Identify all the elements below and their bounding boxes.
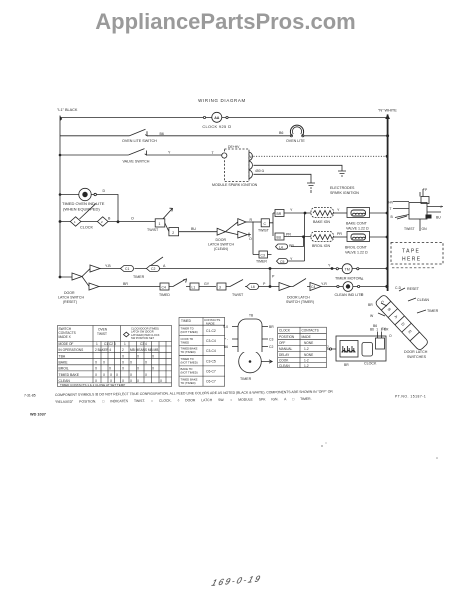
svg-text:T: T [390,207,392,211]
svg-text:C5: C5 [280,260,284,264]
svg-text:WD 1037: WD 1037 [30,413,46,417]
wire oven lite row [60,135,388,137]
svg-text:BU: BU [277,236,282,240]
svg-text:O: O [249,237,252,241]
wire timer row from bus [59,276,62,279]
svg-text:C3 4: C3 4 [140,342,147,346]
mode table h lines [58,341,172,383]
svg-text:B6: B6 [279,131,283,135]
svg-text:SW POSITION SET: SW POSITION SET [131,336,154,340]
svg-text:TIMER MOTOR: TIMER MOTOR [335,276,361,280]
timer dial outline [238,319,262,352]
svg-text:TWIST: TWIST [147,228,159,232]
connector triangle door latch timer [279,283,290,291]
svg-text:BAKE IGN: BAKE IGN [313,220,330,224]
svg-text:(CLEAN): (CLEAN) [214,247,228,251]
svg-text:RESET: RESET [407,287,420,291]
svg-text:TWIST: TWIST [97,332,107,336]
tape here box [391,243,443,268]
svg-text:OVEN LITE: OVEN LITE [286,139,305,143]
svg-text:TIMED: TIMED [159,293,170,297]
module spark ignition box [225,149,250,182]
wire connector block right leads [427,207,443,217]
svg-text:MADE: MADE [302,335,311,339]
svg-text:R: R [361,293,364,297]
svg-text:TWIST: TWIST [404,227,415,231]
connector box BU [275,233,284,240]
svg-text:TD (TIMED): TD (TIMED) [181,350,196,354]
svg-text:C3-C5: C3-C5 [206,359,216,363]
wire bake ign to valve [334,212,348,214]
svg-text:CLEAN: CLEAN [279,364,290,368]
svg-text:TIMED OVEN IND LITE: TIMED OVEN IND LITE [62,201,105,206]
connector oval L broil [276,244,288,249]
svg-text:ELECTRODES: ELECTRODES [330,186,355,190]
svg-text:SWITCHES: SWITCHES [407,355,427,359]
svg-text:X: X [145,361,148,365]
svg-text:BR: BR [344,363,349,367]
svg-text:(NOT TIMED): (NOT TIMED) [181,361,198,365]
wire right bus N [387,115,389,292]
resistor broil igniter [311,232,334,242]
connector triangle reset a [89,283,99,290]
svg-text:Y: Y [290,257,293,261]
svg-text:X: X [152,367,155,371]
svg-text:E: E [407,329,413,335]
svg-text:A: A [393,314,399,320]
svg-text:C3-C4: C3-C4 [206,349,216,353]
svg-text:X: X [130,373,133,377]
connector box 3 [217,283,226,290]
wire split vertical [272,223,274,236]
svg-text:DOOR: DOOR [216,238,227,242]
connector triangle door latch clean b [238,219,246,226]
svg-text:X: X [137,354,140,358]
svg-text:9-0: 9-0 [223,325,228,329]
connector triangle timer b [90,265,100,272]
svg-text:2: 2 [122,348,124,352]
svg-text:OVEN LITE SWITCH: OVEN LITE SWITCH [122,139,157,143]
resistor bake igniter [311,208,334,218]
svg-text:GY: GY [204,282,210,286]
wire module terminal 3 to electrode 1 [254,174,312,183]
wire timed row [99,286,388,288]
svg-text:GN: GN [422,227,428,231]
mode table v lines [93,326,166,383]
svg-text:2 BAKER 4: 2 BAKER 4 [95,348,111,352]
svg-text:BU: BU [191,227,196,231]
svg-text:DOOR LATCH: DOOR LATCH [404,350,428,354]
svg-text:1-2: 1-2 [304,347,309,351]
svg-text:TIMER: TIMER [427,309,439,313]
wire broil ign to valve [334,236,348,238]
svg-text:LATCH SWITCH: LATCH SWITCH [208,243,234,247]
wire vertical broil to C5 [286,213,305,261]
wire valve to N bus [370,212,388,214]
connector box C4 timed [160,283,169,290]
motor timer TM [342,264,352,274]
timer dial pins [232,327,268,347]
junction timer motor row [269,267,272,270]
svg-text:CLOCK: CLOCK [80,226,94,230]
svg-text:MADE: MADE [206,321,215,325]
module terminal 1 [249,152,252,161]
connector triangle timer a [72,273,82,280]
svg-text:PT.NO. 15187-1: PT.NO. 15187-1 [395,395,426,399]
svg-text:AA: AA [214,116,220,120]
connector box L1 [190,283,199,290]
connector box 1 [155,219,165,227]
svg-text:TWIST: TWIST [258,228,270,232]
svg-text:T: T [212,151,215,155]
svg-text:DELAY: DELAY [279,353,290,357]
svg-text:BR: BR [368,303,373,307]
svg-text:PR: PR [289,244,294,248]
switch timed [173,280,185,287]
svg-text:C4: C4 [311,285,315,289]
coil bake cont valve [347,208,370,218]
svg-text:X: X [130,361,133,365]
switch oven lite [130,129,146,136]
svg-text:HERE: HERE [402,257,422,263]
wire module terminal 2 to electrode 2 [254,165,343,171]
svg-text:C6-C7: C6-C7 [206,370,216,374]
svg-text:X: X [145,373,148,377]
connector block right HV [393,202,409,220]
svg-text:X: X [152,354,155,358]
svg-text:TIMED CONTACTS 1 & 2 CLOSE AT: TIMED CONTACTS 1 & 2 CLOSE AT SET TEMP [60,383,125,387]
svg-text:WIRING DIAGRAM: WIRING DIAGRAM [198,98,246,103]
svg-text:C-D: C-D [395,286,402,290]
svg-text:L6: L6 [251,285,255,289]
clock contact 1-2 [376,338,385,349]
svg-text:CLOCK: CLOCK [279,329,291,333]
lamp clock 925 ohm [212,112,222,122]
svg-text:169-0-19: 169-0-19 [210,574,263,588]
module terminal 2 [249,161,252,170]
wire from clock row down to C3 [252,222,254,255]
svg-text:X: X [137,367,140,371]
svg-text:MADE X: MADE X [59,335,72,339]
svg-text:X: X [95,373,98,377]
svg-text:TIMER: TIMER [256,260,267,264]
clock contact diamond 2 [97,217,108,226]
svg-text:SWITCH (TIMER): SWITCH (TIMER) [286,300,314,304]
coil broil cont valve [347,232,370,242]
connector triangle L4 [310,283,321,291]
svg-text:C6-C7: C6-C7 [206,380,216,384]
svg-text:"N" WHITE: "N" WHITE [378,108,397,112]
svg-text:O: O [131,217,134,221]
svg-text:TAPE: TAPE [402,249,420,255]
door latch switch lead arrows [378,288,426,316]
svg-text:MB MEANS MB MB: MB MEANS MB MB [130,348,158,352]
clock coils [342,351,355,353]
svg-text:O: O [389,334,392,338]
svg-text:BR: BR [269,325,274,329]
svg-text:B6: B6 [370,328,374,332]
wire P drop [269,269,271,288]
ground electrode 1 [307,183,315,193]
junction node D [117,220,120,223]
svg-text:C2: C2 [269,345,273,349]
connector triangle clean branch [225,231,250,238]
svg-text:DOOR LATCH: DOOR LATCH [287,296,310,300]
svg-text:X: X [130,379,133,383]
wire box1 to box2 [165,223,169,232]
wire clock row [60,221,155,223]
svg-text:C3: C3 [261,254,265,258]
connector box BR [273,212,275,214]
svg-text:TIMED: TIMED [181,319,192,323]
svg-text:C: C [264,222,267,226]
svg-text:1: 1 [124,342,126,346]
svg-text:2: 2 [381,328,383,332]
svg-text:C1: C1 [125,267,129,271]
svg-text:Y: Y [290,208,293,212]
svg-text:MANUAL: MANUAL [279,347,293,351]
svg-text:TIMER: TIMER [240,377,252,381]
connector oval C2 [147,266,160,272]
svg-text:2: 2 [101,220,103,224]
svg-text:Y: Y [168,150,171,154]
svg-text:C3-C4: C3-C4 [206,339,216,343]
svg-text:1: 1 [376,328,378,332]
svg-text:BROIL IGN: BROIL IGN [312,244,330,248]
svg-text:TBA: TBA [59,354,66,358]
svg-text:B: B [108,217,111,221]
svg-text:BR: BR [277,212,282,216]
svg-text:B: B [391,215,394,219]
svg-text:TM: TM [345,267,350,271]
svg-text:DOOR: DOOR [64,291,75,295]
svg-text:X: X [137,379,140,383]
svg-text:B: B [387,307,393,313]
svg-text:1: 1 [74,220,76,224]
svg-text:TIMED BAKE: TIMED BAKE [59,373,80,377]
wire bake row [284,212,311,214]
ground electrode 2 [338,171,346,176]
svg-text:"L1" BLACK: "L1" BLACK [57,108,78,112]
svg-text:CLOCK 925 Ω: CLOCK 925 Ω [202,124,231,129]
wire timed oven lite loop [60,195,118,222]
svg-text:Y-R: Y-R [321,282,327,286]
svg-text:BAKE CONT: BAKE CONT [346,222,368,226]
clock assembly box [327,348,336,350]
svg-text:TB: TB [249,314,253,318]
svg-text:(NOT TIMED): (NOT TIMED) [181,330,198,334]
door latch switches diagonal strip [374,294,429,351]
svg-text:C4: C4 [162,286,166,290]
svg-text:OVEN: OVEN [98,328,108,332]
wire broil valve to N bus [370,236,388,238]
svg-text:C1-C2: C1-C2 [206,329,216,333]
svg-text:BAKE: BAKE [59,361,69,365]
switch twist (clock row) [163,208,173,219]
svg-text:TWIST: TWIST [232,293,244,297]
svg-text:W: W [370,314,374,318]
svg-text:IN OPERATIONS: IN OPERATIONS [59,348,84,352]
svg-text:1: 1 [96,342,98,346]
connector box C twist [261,219,269,227]
switch clock [80,203,97,219]
svg-text:D: D [103,189,106,193]
svg-text:X: X [103,373,106,377]
svg-text:X: X [160,379,163,383]
svg-text:A: A [163,264,166,268]
svg-text:A: A [361,277,364,281]
connector triangle door latch clean a [217,228,225,235]
wire left bus L1 [59,116,61,279]
svg-text:NONE: NONE [304,353,313,357]
switch valve [128,149,144,155]
svg-text:SPARK IGNITION: SPARK IGNITION [330,191,359,195]
clock cam box [362,343,373,357]
svg-text:J: J [440,205,442,209]
svg-text:AppliancePartsPros.com: AppliancePartsPros.com [95,9,355,34]
svg-text:X: X [122,367,125,371]
svg-text:X: X [110,373,113,377]
connector box 2 [169,228,179,236]
svg-text:450 Ω: 450 Ω [255,169,265,173]
connector oval C1 timer [121,266,134,272]
svg-text:VALVE 1.22 Ω: VALVE 1.22 Ω [346,227,369,231]
svg-text:PR: PR [286,233,291,237]
svg-text:NONE: NONE [304,341,313,345]
clock position table [278,327,327,368]
svg-text:C3: C3 [269,338,273,342]
svg-text:X: X [95,361,98,365]
svg-text:BR: BR [123,282,128,286]
svg-text:TIMED: TIMED [181,341,190,345]
svg-text:"RELAXED" POSITION. □ INDICAT: "RELAXED" POSITION. □ INDICATES TWIST. ○… [55,397,312,404]
mode table X marks [95,354,163,382]
svg-text:D: D [400,321,406,327]
svg-text:X: X [103,361,106,365]
wire connector block bottom lead [419,192,421,231]
svg-text:Y: Y [337,208,340,212]
connector oval L6 [247,284,259,290]
svg-text:P: P [272,275,275,279]
svg-text:BU: BU [436,216,441,220]
svg-text:BR: BR [384,328,389,332]
svg-text:B6: B6 [160,132,164,136]
svg-text:R: R [250,218,253,222]
svg-text:1: 1 [159,222,161,226]
svg-text:X: X [122,354,125,358]
svg-text:MODULE SPARK IGNITION: MODULE SPARK IGNITION [212,183,258,187]
svg-text:VALVE 1.22 Ω: VALVE 1.22 Ω [345,251,368,255]
timer motor circle [239,350,262,373]
svg-text:L1: L1 [192,286,196,290]
svg-text:VALVE SWITCH: VALVE SWITCH [123,159,150,163]
svg-text:BROIL: BROIL [59,367,69,371]
wire BU [179,231,218,233]
svg-text:P: P [263,282,266,286]
lamp clean ind lite [343,282,353,292]
svg-text:CONTACTS: CONTACTS [302,329,319,333]
svg-text:B6: B6 [224,345,228,349]
wire top bus [60,117,388,119]
svg-text:HV: HV [389,201,394,205]
wire valve switch row [60,154,222,156]
svg-text:(RESET): (RESET) [63,300,77,304]
svg-text:COMPONENT SYMBOLS ☒ DO NOT REF: COMPONENT SYMBOLS ☒ DO NOT REFLECT TRUE … [55,390,333,397]
lamp timed oven ind lite [79,188,91,200]
svg-text:X: X [95,367,98,371]
svg-text:MODE OF: MODE OF [59,342,74,346]
svg-text:BROIL CONT: BROIL CONT [345,246,368,250]
clock contact diamond 1 [70,217,81,226]
timed contacts table [179,318,225,387]
svg-text:2: 2 [327,345,329,349]
wire door latch reset row [82,277,89,287]
mode table outer [58,326,172,387]
module terminal 3 [249,170,252,179]
wire module terminal 1 to N bus (dotted) [254,155,388,157]
svg-text:PR: PR [337,232,342,236]
switch twist timed row [230,280,243,287]
wire C to bake/broil split [269,213,273,223]
svg-text:3: 3 [219,286,221,290]
svg-text:C1 C2 3: C1 C2 3 [104,342,116,346]
switch timer row [150,257,163,266]
svg-text:LATCH SWITCH: LATCH SWITCH [58,296,84,300]
junction dot row2 right [386,134,389,137]
svg-text:COOK: COOK [279,359,289,363]
svg-text:TD (TIMED): TD (TIMED) [181,381,196,385]
svg-text:Y-B: Y-B [105,264,111,268]
svg-text:X: X [109,367,112,371]
svg-text:TIMER: TIMER [133,275,145,279]
svg-text:OFF: OFF [279,341,285,345]
svg-text:(NOT TIMED): (NOT TIMED) [181,371,198,375]
svg-text:7 -: 7 - [224,338,228,342]
junction dot row3 left [59,154,62,157]
svg-text:POSITION: POSITION [279,335,295,339]
switch door latch (timer) [293,279,306,287]
svg-text:1-2: 1-2 [304,359,309,363]
wire broil row [284,236,311,238]
svg-text:CLEAN IND LITE: CLEAN IND LITE [335,293,364,297]
connector oval C5 [277,259,288,264]
svg-text:Y: Y [328,264,331,268]
connector box C3 timer [253,254,272,256]
svg-text:X: X [116,373,119,377]
svg-text:W: W [250,155,254,159]
wire rise to C [225,222,237,232]
svg-text:P: P [425,188,428,192]
svg-text:C2: C2 [151,267,155,271]
svg-text:L4: L4 [279,246,283,250]
svg-text:X: X [122,361,125,365]
svg-text:(WHEN EQUIPPED): (WHEN EQUIPPED) [63,206,100,211]
svg-text:DE+HV: DE+HV [228,145,240,149]
svg-text:1-2: 1-2 [304,364,309,368]
svg-text:7-31-85: 7-31-85 [24,394,36,398]
svg-text:2: 2 [172,231,174,235]
svg-text:CLOCK: CLOCK [364,362,377,366]
svg-text:CLEAN: CLEAN [417,298,429,302]
